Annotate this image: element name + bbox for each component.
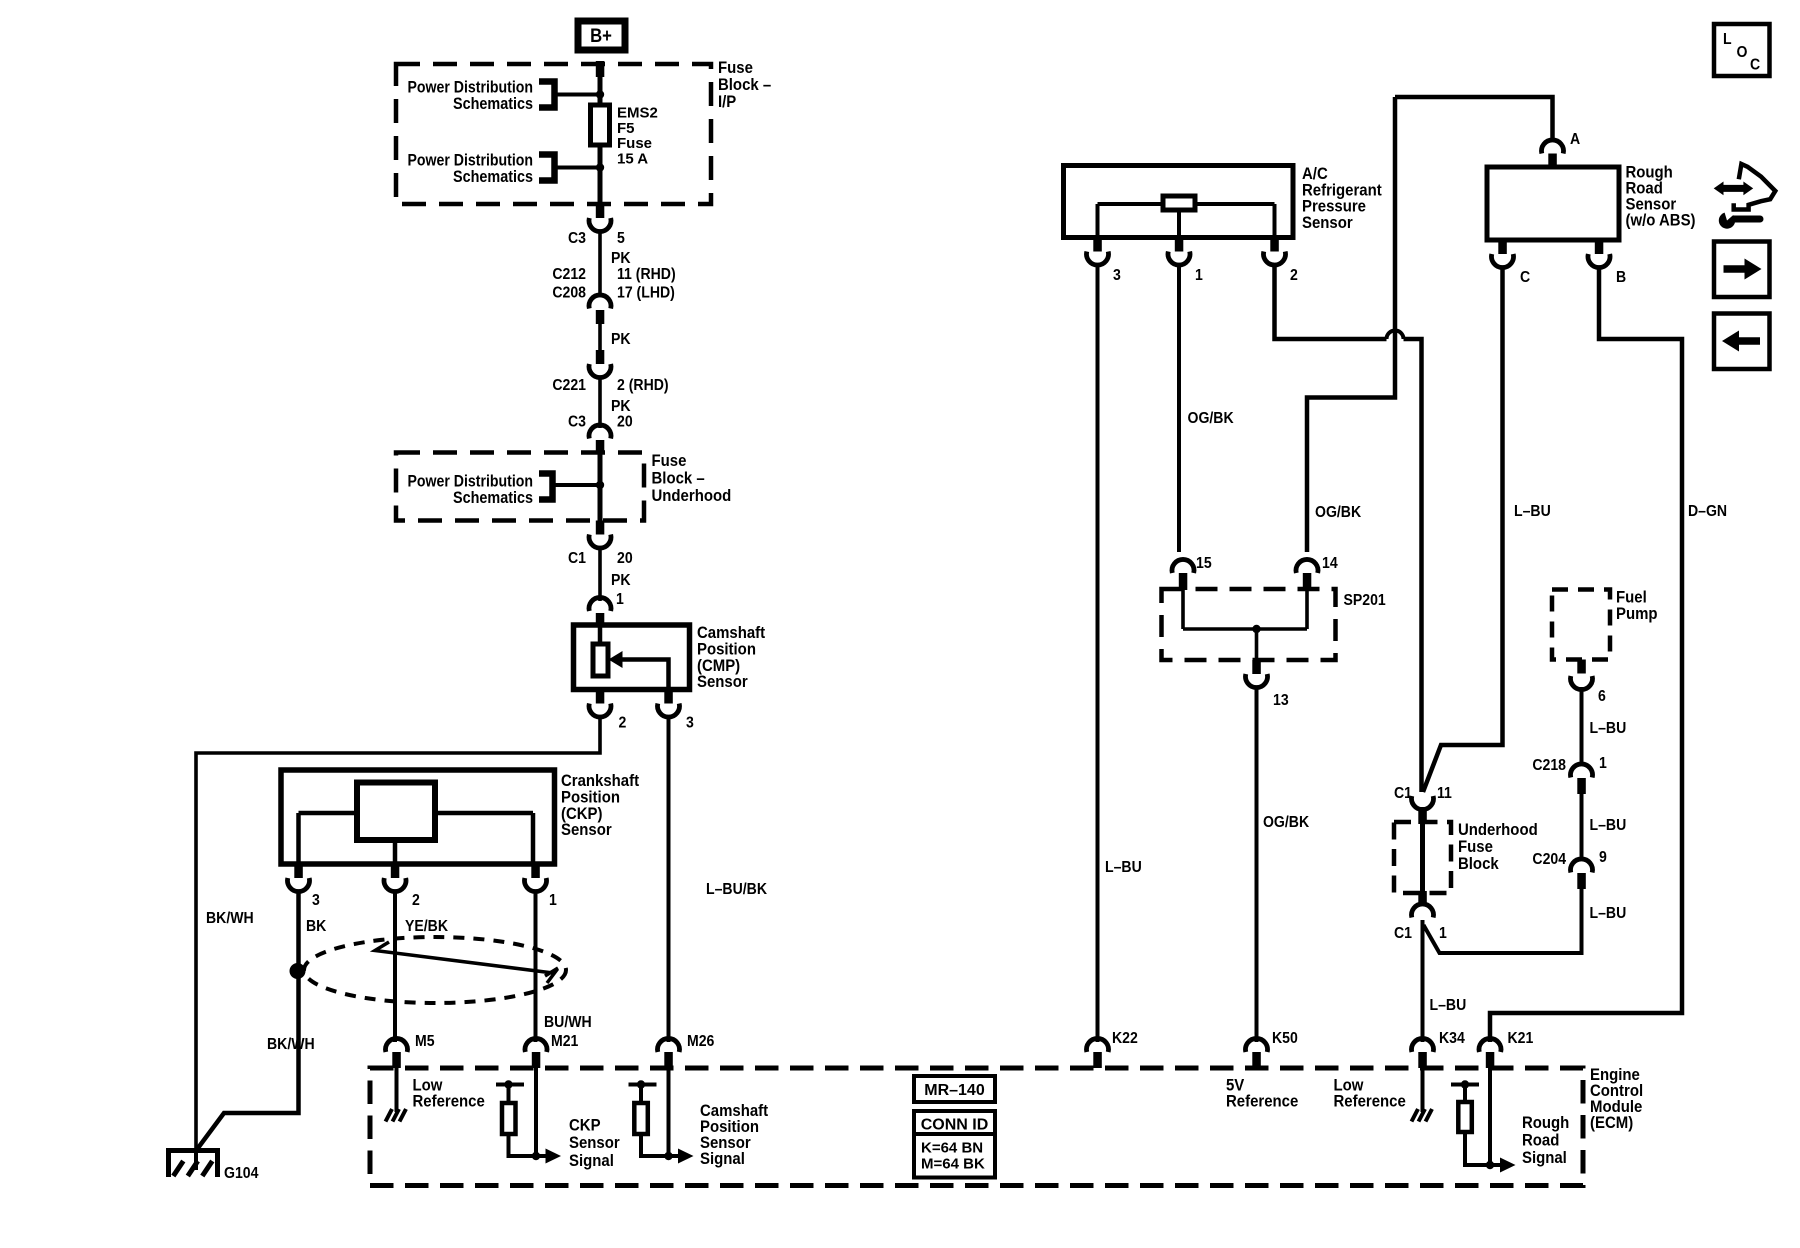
connector C3 pin 5 (stub + female arc) [596, 204, 605, 218]
connector C1 pin 1 (stub + female dome below) [1418, 891, 1427, 906]
wire: through underhood fuse block [598, 453, 603, 521]
node: dot at signal junction [664, 1152, 672, 1160]
fuel pump pin 6 (stub + female arc) [1577, 660, 1586, 674]
chassis ground (ECM internal, M5) [386, 1109, 407, 1122]
svg-text:YE/BK: YE/BK [405, 917, 448, 935]
wire: L-BU C218 to C204 [1580, 794, 1584, 861]
connector M5 (female dome + stub into ECM) [386, 1038, 408, 1052]
wire: CKP pin3 BK down to junction and G104 [197, 892, 299, 1151]
connector SP201 pin 15 (female dome + stub) [1172, 559, 1194, 573]
connector SP201 pin 14 (female dome + stub) [1296, 559, 1318, 573]
wire: tap to main [553, 483, 601, 487]
twisted pair ellipse (dashed) [304, 937, 566, 1003]
battery feed B+ [578, 21, 625, 50]
svg-text:L–BU: L–BU [1514, 502, 1551, 520]
Fuse Block - I/P (dashed box) [396, 64, 711, 204]
svg-text:C212: C212 [552, 265, 586, 283]
wire: CMP pin3 L-BU/BK down to M26 [667, 717, 671, 1042]
wire: top run to pin A [1395, 97, 1553, 142]
svg-text:BU/WH: BU/WH [544, 1013, 592, 1031]
connector C3 pin 20 (female dome + stub below) [589, 425, 611, 439]
svg-text:3: 3 [312, 891, 320, 909]
svg-text:L–BU: L–BU [1590, 719, 1627, 737]
svg-text:M21: M21 [551, 1032, 578, 1050]
svg-text:17 (LHD): 17 (LHD) [617, 284, 675, 302]
icon: LOC box [1714, 24, 1770, 76]
svg-text:L–BU: L–BU [1430, 996, 1467, 1014]
bracket: power distribution tap 1 [539, 82, 555, 108]
CKP internal element [357, 783, 435, 841]
wire: K34 to internal ground [1421, 1068, 1425, 1112]
rough road pin C (stub + female arc) [1498, 240, 1507, 254]
svg-text:Schematics: Schematics [453, 94, 533, 113]
A/C pin 2 (stub + female arc) [1270, 238, 1279, 252]
svg-text:1: 1 [549, 891, 557, 909]
svg-text:MR–140: MR–140 [924, 1082, 985, 1099]
wire PK pin 1 [598, 548, 602, 601]
svg-text:G104: G104 [224, 1164, 259, 1182]
svg-text:C204: C204 [1532, 850, 1566, 868]
svg-text:L–BU: L–BU [1590, 904, 1627, 922]
connector K34 (female dome + stub into ECM) [1412, 1038, 1434, 1052]
svg-text:1: 1 [616, 590, 624, 608]
svg-text:D–GN: D–GN [1688, 502, 1727, 520]
A/C pin 3 (stub + female arc) [1093, 238, 1102, 252]
wire: M5 to internal ground [395, 1068, 399, 1112]
wire: A/C pin3 L-BU down to K22 [1096, 265, 1100, 1042]
connector C1 pin 11 (female arc + stub into underhood fuse block) [1412, 796, 1434, 810]
svg-text:BK/WH: BK/WH [206, 909, 254, 927]
resistor (ECM internal, CMP) [629, 1080, 679, 1156]
svg-text:20: 20 [617, 413, 633, 431]
wire: C1 pin1 L-BU down to K34 [1421, 920, 1425, 1042]
svg-text:Schematics: Schematics [453, 167, 533, 186]
wire: CKP pin1 BU/WH down to M21 [534, 892, 538, 1043]
wire: pin C L-BU down to C1 pin 11 [1423, 268, 1503, 793]
arrow: rough road signal [1500, 1158, 1516, 1173]
wire through underhood fuse block [1420, 824, 1425, 891]
svg-text:M5: M5 [415, 1032, 435, 1050]
svg-text:13: 13 [1273, 691, 1289, 709]
svg-text:C1: C1 [568, 549, 586, 567]
ground G104 [166, 1148, 259, 1182]
connector C221 pin 2 (stub + female arc) [596, 350, 605, 364]
MR-140 reference box [914, 1076, 995, 1102]
wire: A/C pin2 right with hop, down to C1 pin 11 [1275, 265, 1387, 339]
wire PK [598, 378, 602, 429]
svg-text:A: A [1570, 130, 1580, 148]
wire: M26 down to signal node [667, 1068, 671, 1156]
wire: A/C pin1 OG/BK down to SP201 pin 15 [1177, 265, 1181, 552]
connector M21 (female dome + stub into ECM) [525, 1038, 547, 1052]
svg-text:B: B [1616, 268, 1626, 286]
resistor (ECM internal, rough road) [1451, 1080, 1500, 1165]
svg-text:C221: C221 [552, 376, 586, 394]
svg-text:O: O [1737, 43, 1748, 61]
svg-text:3: 3 [1113, 266, 1121, 284]
svg-text:1: 1 [1439, 924, 1447, 942]
svg-text:11: 11 [1437, 784, 1452, 802]
rough road pin B (stub + female arc) [1595, 240, 1604, 254]
svg-text:2 (RHD): 2 (RHD) [617, 376, 669, 394]
Crankshaft Position (CKP) Sensor box [281, 770, 555, 864]
arrow: CKP sensor signal [546, 1149, 562, 1164]
svg-text:C3: C3 [568, 413, 586, 431]
svg-text:K21: K21 [1507, 1029, 1533, 1047]
svg-text:SP201: SP201 [1344, 591, 1386, 609]
node: dot at signal junction [1486, 1161, 1494, 1169]
wire hop over vertical [1387, 331, 1404, 340]
A/C pin 1 (stub + female arc) [1175, 238, 1184, 252]
CMP internal arrow [621, 660, 669, 690]
svg-text:L–BU/BK: L–BU/BK [706, 880, 767, 898]
wire: OG/BK from top corner down to SP201 pin 14 [1307, 97, 1395, 552]
CONN ID table [914, 1111, 995, 1178]
svg-text:L–BU: L–BU [1590, 816, 1627, 834]
svg-text:C3: C3 [568, 229, 586, 247]
connector C218 pin 1 (female dome + stub) [1571, 764, 1593, 778]
twist line with hooks [375, 942, 553, 973]
svg-text:OG/BK: OG/BK [1263, 813, 1309, 831]
icon: data link logo (arrow, car outline, wrench) [1714, 164, 1776, 229]
connector K22 (female dome + stub into ECM) [1087, 1038, 1109, 1052]
svg-text:9: 9 [1599, 848, 1607, 866]
wire: tap 2 to main [555, 166, 601, 170]
svg-text:C208: C208 [552, 284, 586, 302]
wire: branch to fuel pump chain via C204 [1424, 889, 1582, 953]
svg-text:6: 6 [1598, 687, 1606, 705]
A/C Refrigerant Pressure Sensor box [1064, 166, 1294, 238]
node: junction dot lower [596, 163, 604, 171]
svg-text:OG/BK: OG/BK [1315, 503, 1361, 521]
wire PK [598, 324, 602, 351]
Fuel Pump (dashed box) [1552, 590, 1610, 660]
svg-text:BK/WH: BK/WH [267, 1035, 315, 1053]
splice SP201 (dashed box) [1162, 589, 1336, 660]
svg-text:B+: B+ [590, 25, 612, 46]
svg-text:PK: PK [611, 571, 631, 589]
wire: tap 1 to main [555, 93, 601, 97]
svg-text:2: 2 [619, 714, 627, 732]
wire: vertical through fuse block [598, 75, 603, 204]
Underhood Fuse Block (dashed box right) [1394, 822, 1451, 893]
CMP pin 2 (stub + female arc) [596, 690, 605, 704]
svg-text:Schematics: Schematics [453, 488, 533, 507]
svg-text:K34: K34 [1439, 1029, 1465, 1047]
chassis ground (ECM internal, K34) [1412, 1109, 1433, 1122]
icon: forward arrow box [1714, 242, 1770, 298]
CKP pin 2 (stub + female arc) [391, 864, 400, 878]
node: splice dot on BK wire [290, 963, 306, 979]
bracket: power distribution tap 2 [539, 155, 555, 181]
svg-text:1: 1 [1195, 266, 1203, 284]
svg-text:BK: BK [306, 917, 326, 935]
svg-text:C218: C218 [1532, 756, 1566, 774]
fuse EMS2 F5 15A [591, 105, 610, 145]
wire: pin B D-GN right and down to K21 [1490, 268, 1682, 1043]
A/C internal element [1098, 204, 1275, 238]
node: dot at signal junction [532, 1152, 540, 1160]
svg-text:3: 3 [686, 714, 694, 732]
svg-text:C: C [1520, 268, 1530, 286]
wire: K21 down to signal node [1488, 1068, 1492, 1165]
svg-text:1: 1 [1599, 754, 1607, 772]
svg-text:11 (RHD): 11 (RHD) [617, 265, 676, 283]
svg-text:L: L [1723, 30, 1732, 48]
wire PK [598, 232, 602, 298]
connector K50 (female dome + stub into ECM) [1246, 1038, 1268, 1052]
svg-text:C: C [1750, 56, 1760, 74]
svg-text:C1: C1 [1394, 784, 1412, 802]
wires inside SP201 [1183, 590, 1307, 660]
svg-text:5: 5 [617, 229, 625, 247]
svg-text:M=64 BK: M=64 BK [921, 1156, 985, 1173]
bracket: power distribution tap [539, 474, 553, 500]
CKP pin 3 (stub + female arc) [294, 864, 303, 878]
connector pin 13 (stub + female arc) [1252, 660, 1261, 674]
svg-text:CONN ID: CONN ID [921, 1117, 989, 1134]
node: junction dot [596, 481, 604, 489]
wire: B+ into fuse block (male stub) [596, 61, 605, 77]
connector into CMP (female dome + stub) [589, 597, 611, 611]
svg-text:C1: C1 [1394, 924, 1412, 942]
wire: CMP pin2 down, left and to ground G104 [196, 717, 600, 1170]
svg-text:K50: K50 [1272, 1029, 1298, 1047]
wire: CKP pin2 YE/BK down to M5 [393, 892, 397, 1043]
svg-text:OG/BK: OG/BK [1188, 409, 1234, 427]
connector K21 (female dome + stub into ECM) [1479, 1038, 1501, 1052]
node: splice dot [1252, 625, 1260, 633]
node: junction dot upper [596, 90, 604, 98]
CMP internal element [598, 625, 603, 645]
svg-text:15: 15 [1196, 554, 1212, 572]
svg-text:M26: M26 [687, 1032, 714, 1050]
Camshaft Position (CMP) Sensor box [574, 625, 690, 690]
CMP pin 3 (stub + female arc) [664, 690, 673, 704]
CKP pin 1 (stub + female arc) [531, 864, 540, 878]
wire: SP201 pin13 OG/BK down to K50 [1255, 688, 1259, 1043]
Rough Road Sensor box [1487, 167, 1619, 240]
wire: L-BU fuel pump to C218 [1580, 687, 1584, 766]
icon: back arrow box [1714, 314, 1770, 370]
CKP internal wires [299, 813, 534, 864]
wire: M21 down to signal node [534, 1068, 538, 1156]
svg-text:PK: PK [611, 330, 631, 348]
connector C212/C208 (female dome + stub below) [589, 295, 611, 309]
Fuse Block - Underhood (dashed box) [396, 453, 644, 521]
connector C1 pin 20 (stub + female arc) [596, 521, 605, 535]
connector pin A (female dome + stub into sensor) [1541, 140, 1563, 154]
connector M26 (female dome + stub into ECM) [658, 1038, 680, 1052]
svg-text:2: 2 [412, 891, 420, 909]
connector C204 pin 9 (female dome + stub) [1571, 859, 1593, 873]
svg-text:2: 2 [1290, 266, 1298, 284]
svg-text:K22: K22 [1112, 1029, 1138, 1047]
svg-text:L–BU: L–BU [1105, 858, 1142, 876]
svg-text:14: 14 [1322, 554, 1338, 572]
resistor (ECM internal, CKP) [496, 1080, 546, 1156]
svg-text:20: 20 [617, 549, 633, 567]
Engine Control Module (ECM) dashed box [370, 1068, 1583, 1186]
arrow: camshaft position sensor signal [678, 1149, 694, 1164]
svg-text:K=64 BN: K=64 BN [921, 1140, 983, 1157]
